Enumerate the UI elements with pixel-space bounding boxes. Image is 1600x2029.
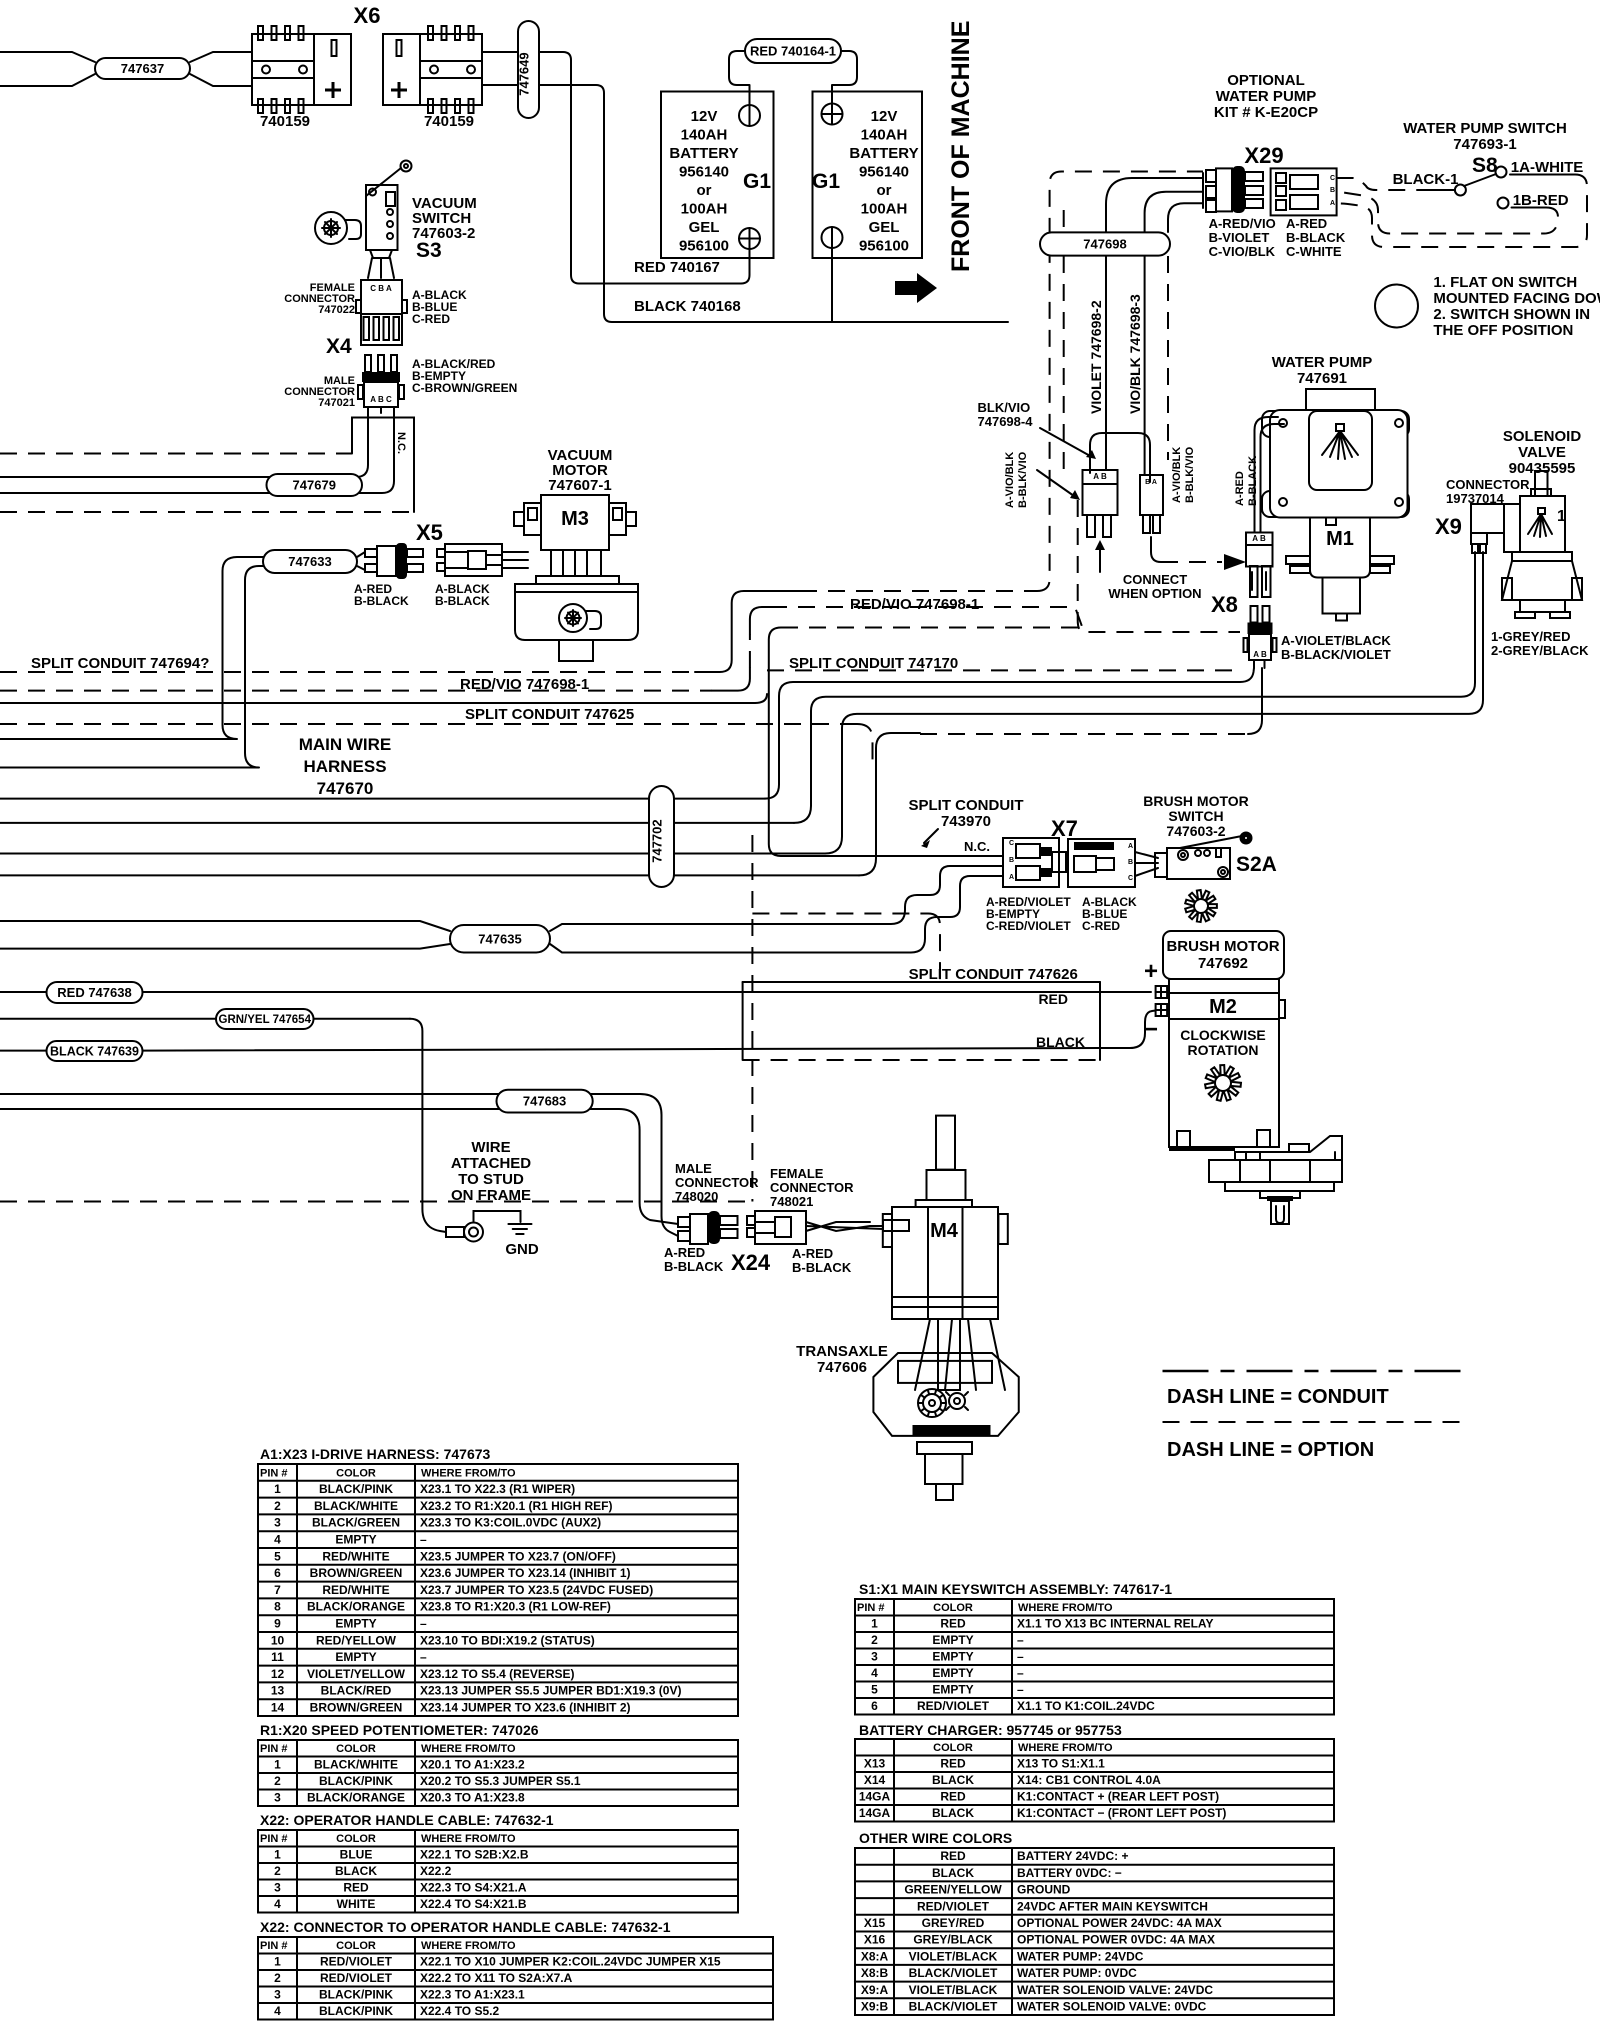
svg-text:X23.1 TO X22.3 (R1 WIPER): X23.1 TO X22.3 (R1 WIPER): [420, 1482, 575, 1496]
svg-text:WHERE FROM/TO: WHERE FROM/TO: [421, 1833, 516, 1845]
M3 left bracket: [524, 503, 541, 535]
svg-text:X15: X15: [864, 1916, 886, 1930]
harness wire L1 798.6: [0, 798, 765, 800]
svg-text:BLACK/PINK: BLACK/PINK: [319, 1774, 393, 1788]
svg-text:WATER SOLENOID VALVE: 0VDC: WATER SOLENOID VALVE: 0VDC: [1017, 2000, 1207, 2014]
svg-text:2: 2: [274, 1971, 281, 1985]
wire X29 to BLACK-1: [1337, 178, 1421, 190]
spring icon S2A: [1185, 890, 1217, 922]
wires water pump to X8-mate: [1255, 417, 1279, 532]
svg-text:SWITCH: SWITCH: [1168, 808, 1223, 824]
svg-text:BLACK/VIOLET: BLACK/VIOLET: [909, 2000, 998, 2014]
svg-text:747022: 747022: [318, 304, 355, 316]
battery G1 left box: [661, 92, 774, 259]
svg-text:4: 4: [274, 1897, 281, 1911]
conduit label 747633: [263, 550, 357, 573]
svg-text:VIOLET 747698-2: VIOLET 747698-2: [1088, 300, 1104, 414]
wire battery1 plus to RED 740167: [741, 258, 750, 284]
svg-text:3: 3: [274, 1791, 281, 1805]
svg-text:X4: X4: [326, 335, 352, 358]
wire jumper RED 740164-1 left: [729, 51, 750, 92]
svg-text:BRUSH MOTOR: BRUSH MOTOR: [1166, 938, 1279, 955]
svg-text:X14: CB1 CONTROL 4.0A: X14: CB1 CONTROL 4.0A: [1017, 1773, 1161, 1787]
svg-text:A-VIO/BLK: A-VIO/BLK: [1004, 452, 1016, 508]
svg-text:BLACK: BLACK: [932, 1866, 974, 1880]
svg-text:OPTIONAL POWER 24VDC: 4A M: OPTIONAL POWER 24VDC: 4A MAX: [1017, 1916, 1222, 1930]
blower icon S3: [315, 212, 347, 244]
svg-text:A1:X23 I-DRIVE HARNESS: 747: A1:X23 I-DRIVE HARNESS: 747673: [260, 1446, 491, 1462]
dashed conduit riser 752.4: [751, 835, 753, 1202]
svg-text:WHITE: WHITE: [337, 1897, 376, 1911]
jumper label RED 740164-1: [745, 39, 841, 63]
svg-text:7: 7: [274, 1583, 281, 1597]
svg-text:6: 6: [274, 1566, 281, 1580]
svg-text:K1:CONTACT + (REAR LEFT PO: K1:CONTACT + (REAR LEFT POST): [1017, 1790, 1219, 1804]
svg-text:12: 12: [271, 1667, 285, 1681]
svg-text:CONNECTOR: CONNECTOR: [1446, 477, 1530, 492]
svg-text:DASH LINE = OPTION: DASH LINE = OPTION: [1167, 1439, 1374, 1461]
water pump barbs: [1286, 556, 1310, 564]
svg-text:747692: 747692: [1198, 955, 1248, 972]
svg-text:BLACK/VIOLET: BLACK/VIOLET: [909, 1966, 998, 1980]
svg-text:X22: CONNECTOR TO OPERATOR: X22: CONNECTOR TO OPERATOR HANDLE CABLE:…: [260, 1919, 671, 1935]
svg-text:S8: S8: [1472, 154, 1498, 177]
battery G1 right plus terminal: [822, 104, 843, 125]
connector X6 right half 740159: [383, 34, 420, 105]
M3 right bracket: [609, 503, 626, 535]
svg-text:X8:A: X8:A: [861, 1949, 889, 1963]
transaxle M4 connector tab: [883, 1220, 909, 1231]
svg-text:CONNECTOR: CONNECTOR: [675, 1175, 759, 1190]
transaxle gearbox: [873, 1353, 1018, 1436]
svg-text:GROUND: GROUND: [1017, 1883, 1071, 1897]
svg-text:12V: 12V: [871, 108, 898, 125]
battery G1 right minus terminal: [822, 227, 843, 248]
svg-text:956140: 956140: [679, 164, 729, 181]
svg-text:1A-WHITE: 1A-WHITE: [1511, 159, 1584, 176]
brush motor M2 body: [1169, 979, 1279, 1147]
blower icon M3: [559, 604, 587, 632]
svg-text:X22.1 TO S2B:X2.B: X22.1 TO S2B:X2.B: [420, 1848, 529, 1862]
svg-text:COLOR: COLOR: [336, 1940, 376, 1952]
M3 commutator bars: [551, 550, 601, 576]
svg-text:747649: 747649: [517, 52, 532, 95]
vacuum motor M3 box: [541, 495, 609, 550]
svg-text:A B: A B: [1253, 650, 1267, 659]
svg-text:S1:X1 MAIN KEYSWITCH ASSEMB: S1:X1 MAIN KEYSWITCH ASSEMBLY: 747617-1: [859, 1581, 1172, 1597]
svg-text:–: –: [420, 1650, 427, 1664]
M3 dome housing: [515, 584, 638, 640]
M2 right tab: [1279, 1000, 1285, 1018]
svg-text:X8:B: X8:B: [861, 1966, 889, 1980]
svg-text:4: 4: [274, 1533, 281, 1547]
svg-text:WIRE: WIRE: [471, 1139, 510, 1156]
connector X6 left half 740159: [252, 34, 314, 105]
dashed option loop inner: [1512, 207, 1547, 209]
conduit label 747698: [1040, 232, 1170, 255]
svg-text:956100: 956100: [859, 238, 909, 255]
svg-text:SPLIT CONDUIT: SPLIT CONDUIT: [909, 797, 1024, 814]
svg-text:BLACK 747639: BLACK 747639: [50, 1044, 139, 1058]
water pump outlet: [1323, 578, 1361, 614]
svg-text:B: B: [1128, 859, 1133, 866]
svg-text:BATTERY: BATTERY: [849, 145, 918, 162]
wire battery2 minus to BLACK 740168: [831, 248, 833, 322]
svg-text:X13: X13: [864, 1757, 886, 1771]
svg-text:or: or: [697, 182, 712, 199]
svg-text:B-BLACK: B-BLACK: [435, 594, 490, 608]
svg-text:RED/VIOLET: RED/VIOLET: [917, 1699, 990, 1713]
svg-text:X9: X9: [1435, 514, 1462, 539]
svg-text:2: 2: [274, 1774, 281, 1788]
arrow connect-up: [1099, 548, 1101, 572]
svg-text:747637: 747637: [121, 61, 164, 76]
water pump top block: [1306, 389, 1375, 412]
X8 mate connector: [1246, 533, 1273, 567]
svg-text:100AH: 100AH: [681, 201, 728, 218]
split conduit 747626 box: [743, 981, 1100, 983]
svg-text:14GA: 14GA: [859, 1790, 891, 1804]
svg-text:PIN #: PIN #: [260, 1940, 288, 1952]
svg-text:X20.3 TO A1:X23.8: X20.3 TO A1:X23.8: [420, 1791, 525, 1805]
svg-text:X22.3 TO A1:X23.1: X22.3 TO A1:X23.1: [420, 1988, 525, 2002]
battery G1 right box: [813, 92, 923, 259]
svg-text:PIN #: PIN #: [260, 1467, 288, 1479]
svg-text:X9:A: X9:A: [861, 1983, 889, 1997]
svg-text:PIN #: PIN #: [260, 1743, 288, 1755]
svg-text:2. SWITCH SHOWN IN: 2. SWITCH SHOWN IN: [1433, 306, 1590, 323]
svg-text:X6: X6: [354, 3, 381, 28]
arrow label to C1: [1037, 470, 1074, 496]
svg-text:13: 13: [271, 1684, 285, 1698]
svg-text:B: B: [1330, 187, 1335, 194]
X24 male connector: [678, 1217, 690, 1227]
connector C1 A-VIO/BLK: [1083, 470, 1118, 515]
svg-text:11: 11: [271, 1650, 284, 1664]
svg-text:EMPTY: EMPTY: [932, 1683, 973, 1697]
svg-text:90435595: 90435595: [1509, 460, 1576, 477]
svg-text:RED 740167: RED 740167: [634, 259, 720, 276]
svg-text:X22.3 TO S4:X21.A: X22.3 TO S4:X21.A: [420, 1881, 527, 1895]
wire BLACK 747639: [0, 1050, 47, 1052]
svg-text:10: 10: [271, 1633, 285, 1647]
svg-text:RED: RED: [940, 1790, 966, 1804]
svg-text:X16: X16: [864, 1933, 886, 1947]
svg-text:OTHER WIRE COLORS: OTHER WIRE COLORS: [859, 1830, 1012, 1846]
wire X4 pin A down to 747679: [0, 413, 368, 477]
svg-text:3: 3: [274, 1516, 281, 1530]
svg-text:C: C: [1330, 175, 1335, 182]
S3 harness enclosure box: [352, 418, 414, 513]
svg-text:X8: X8: [1211, 592, 1238, 617]
bridge wire 747698-4: [1090, 433, 1150, 482]
svg-text:X23.6 JUMPER TO X23.14 (IN: X23.6 JUMPER TO X23.14 (INHIBIT 1): [420, 1566, 631, 1580]
svg-text:G1: G1: [812, 170, 840, 193]
svg-text:VALVE: VALVE: [1518, 444, 1566, 461]
svg-text:WATER PUMP: WATER PUMP: [1216, 88, 1317, 105]
svg-text:747679: 747679: [293, 478, 336, 493]
svg-text:2: 2: [871, 1633, 878, 1647]
svg-text:BATTERY 0VDC: −: BATTERY 0VDC: −: [1017, 1866, 1122, 1880]
water pump body: [1262, 411, 1297, 437]
svg-text:BLACK/PINK: BLACK/PINK: [319, 1482, 393, 1496]
riser wire v811 to solenoid 1: [794, 552, 1475, 823]
svg-text:3: 3: [274, 1988, 281, 2002]
svg-text:C B A: C B A: [370, 284, 392, 293]
wire BLACK to M2 minus: [1100, 1011, 1156, 1049]
svg-text:TO STUD: TO STUD: [458, 1171, 524, 1188]
svg-text:BLACK/ORANGE: BLACK/ORANGE: [307, 1791, 405, 1805]
svg-text:WHEN OPTION: WHEN OPTION: [1108, 586, 1201, 601]
svg-text:X23.13 JUMPER S5.5 JUMPER: X23.13 JUMPER S5.5 JUMPER BD1:X19.3 (0V): [420, 1684, 681, 1698]
dashed option boundary 627.5: [781, 627, 1080, 629]
vacuum switch S3 lever: [366, 168, 401, 196]
wire GRN/YEL 747654: [0, 1018, 216, 1020]
svg-text:747635: 747635: [478, 931, 521, 946]
svg-text:BROWN/GREEN: BROWN/GREEN: [310, 1566, 403, 1580]
svg-text:GRN/YEL 747654: GRN/YEL 747654: [219, 1014, 312, 1026]
note circle: [1375, 285, 1418, 328]
svg-text:X22.2: X22.2: [420, 1864, 452, 1878]
svg-text:X20.2 TO S5.3 JUMPER S5.1: X20.2 TO S5.3 JUMPER S5.1: [420, 1774, 581, 1788]
svg-text:1. FLAT ON SWITCH: 1. FLAT ON SWITCH: [1433, 274, 1577, 291]
svg-text:X5: X5: [416, 520, 443, 545]
svg-text:EMPTY: EMPTY: [335, 1617, 376, 1631]
svg-text:WHERE FROM/TO: WHERE FROM/TO: [421, 1467, 516, 1479]
svg-text:1: 1: [274, 1848, 281, 1862]
svg-text:RED/VIO 747698-1: RED/VIO 747698-1: [850, 596, 979, 613]
svg-text:N.C.: N.C.: [964, 839, 990, 854]
transaxle M4 body: [892, 1207, 998, 1319]
svg-text:1B-RED: 1B-RED: [1513, 192, 1569, 209]
ground bracket: [474, 1211, 521, 1223]
dashed wire 747170 670.4: [767, 669, 1238, 671]
svg-text:X22.4 TO S5.2: X22.4 TO S5.2: [420, 2004, 499, 2018]
conduit label 747679: [267, 474, 363, 496]
svg-text:B-BLK/VIO: B-BLK/VIO: [1184, 446, 1196, 503]
svg-text:747698-4: 747698-4: [978, 414, 1034, 429]
svg-text:8: 8: [274, 1600, 281, 1614]
conduit dashed line 453.5: [0, 453, 352, 455]
X5 male connector half: [357, 552, 365, 557]
svg-text:2-GREY/BLACK: 2-GREY/BLACK: [1491, 643, 1589, 658]
wire N.C. riser to X7: [769, 628, 1003, 857]
svg-text:RED/VIOLET: RED/VIOLET: [917, 1899, 990, 1913]
conduit label 747702 vertical: [649, 786, 674, 887]
svg-text:S2A: S2A: [1236, 853, 1277, 876]
svg-text:RED/VIOLET: RED/VIOLET: [320, 1971, 393, 1985]
svg-text:COLOR: COLOR: [336, 1833, 376, 1845]
svg-text:B-BLACK: B-BLACK: [1247, 456, 1259, 506]
svg-text:4: 4: [871, 1666, 878, 1680]
svg-text:A-RED: A-RED: [1286, 216, 1327, 231]
dashed wire 690 RED/VIO to X8 riser: [0, 690, 712, 692]
svg-text:4: 4: [274, 2004, 281, 2018]
svg-text:X24: X24: [731, 1250, 771, 1275]
conduit label 747637: [95, 58, 190, 79]
svg-text:N.C.: N.C.: [395, 432, 407, 454]
X7 male connector: [1068, 839, 1135, 887]
svg-text:RED: RED: [940, 1757, 966, 1771]
label BRUSH MOTOR 747692 box: [1163, 931, 1284, 979]
dashed wire 672 to M3/X29 riser: [0, 671, 695, 673]
svg-text:COLOR: COLOR: [933, 1742, 973, 1754]
svg-text:WATER PUMP: WATER PUMP: [1272, 354, 1373, 371]
wire X29-B to vio/blk riser: [1145, 192, 1203, 475]
svg-text:6: 6: [871, 1699, 878, 1713]
svg-text:SPLIT CONDUIT 747694?: SPLIT CONDUIT 747694?: [31, 655, 209, 672]
wire C2 to option arrow: [1151, 537, 1161, 562]
svg-text:B-BLACK: B-BLACK: [1286, 230, 1346, 245]
svg-text:747691: 747691: [1297, 370, 1347, 387]
svg-text:X1.1 TO X13 BC INTERNAL R: X1.1 TO X13 BC INTERNAL RELAY: [1017, 1617, 1214, 1631]
wire pair 747683: [0, 1093, 640, 1095]
svg-text:2: 2: [274, 1864, 281, 1878]
svg-text:BLACK/GREEN: BLACK/GREEN: [312, 1516, 400, 1530]
svg-text:747607-1: 747607-1: [548, 477, 611, 494]
wires X7 to S2A plug: [1135, 852, 1158, 858]
svg-text:WATER PUMP SWITCH: WATER PUMP SWITCH: [1403, 120, 1567, 137]
ground symbol: [508, 1223, 531, 1225]
svg-text:B-BLACK/VIOLET: B-BLACK/VIOLET: [1281, 647, 1391, 662]
svg-text:M4: M4: [930, 1220, 959, 1242]
svg-text:VIO/BLK 747698-3: VIO/BLK 747698-3: [1127, 294, 1143, 414]
svg-text:GREY/BLACK: GREY/BLACK: [913, 1933, 993, 1947]
svg-text:BLACK: BLACK: [335, 1864, 377, 1878]
svg-text:TRANSAXLE: TRANSAXLE: [796, 1343, 888, 1360]
svg-text:A-RED: A-RED: [664, 1245, 705, 1260]
svg-text:1: 1: [274, 1955, 281, 1969]
svg-text:WATER PUMP: 0VDC: WATER PUMP: 0VDC: [1017, 1966, 1137, 1980]
water pump inner panel: [1309, 411, 1372, 490]
svg-text:SPLIT CONDUIT 747170: SPLIT CONDUIT 747170: [789, 655, 958, 672]
svg-text:KIT # K-E20CP: KIT # K-E20CP: [1214, 104, 1318, 121]
svg-text:EMPTY: EMPTY: [932, 1666, 973, 1680]
svg-text:C: C: [1128, 875, 1133, 882]
svg-text:X23.12 TO S5.4 (REVERSE): X23.12 TO S5.4 (REVERSE): [420, 1667, 575, 1681]
label RED 747638: [47, 982, 143, 1003]
dashed wire 611 to X8: [770, 607, 1240, 632]
X8 connector: [1251, 606, 1258, 623]
svg-text:3: 3: [274, 1881, 281, 1895]
svg-text:GEL: GEL: [869, 219, 900, 236]
female connector 747022: [361, 280, 402, 345]
svg-text:RED/VIOLET: RED/VIOLET: [320, 1955, 393, 1969]
X5 female connector half: [437, 549, 445, 557]
svg-text:747698: 747698: [1083, 237, 1126, 252]
water pump motor M1: [1310, 518, 1370, 578]
svg-text:956140: 956140: [859, 164, 909, 181]
dashed conduit riser inner-left: [1063, 210, 1065, 232]
transaxle M4 shaft top: [936, 1116, 955, 1170]
svg-text:748020: 748020: [675, 1189, 718, 1204]
svg-text:FEMALE: FEMALE: [770, 1166, 824, 1181]
svg-text:A-VIO/BLK: A-VIO/BLK: [1171, 447, 1183, 503]
svg-text:B: B: [1009, 857, 1014, 864]
svg-text:X23.3 TO K3:COIL.0VDC (AUX2: X23.3 TO K3:COIL.0VDC (AUX2): [420, 1516, 601, 1530]
svg-text:CONNECT: CONNECT: [1123, 572, 1187, 587]
svg-text:BLACK/RED: BLACK/RED: [321, 1684, 392, 1698]
svg-text:ATTACHED: ATTACHED: [451, 1155, 531, 1172]
svg-text:A B: A B: [1093, 472, 1107, 481]
dashed conduit line 1201: [0, 1201, 752, 1203]
svg-text:X23.2 TO R1:X20.1 (R1 HIGH: X23.2 TO R1:X20.1 (R1 HIGH REF): [420, 1499, 613, 1513]
wire X29-C to dashed riser 1168: [1168, 203, 1203, 232]
svg-text:X23.8 TO R1:X20.3 (R1 LOW-: X23.8 TO R1:X20.3 (R1 LOW-REF): [420, 1600, 611, 1614]
S2A lever: [1180, 836, 1242, 848]
svg-text:1-GREY/RED: 1-GREY/RED: [1491, 629, 1570, 644]
svg-text:B-BLACK: B-BLACK: [354, 594, 409, 608]
dashed conduit riser lower: [1078, 500, 1084, 632]
label BLACK 747639: [47, 1041, 143, 1061]
svg-text:WHERE FROM/TO: WHERE FROM/TO: [421, 1940, 516, 1952]
svg-text:BATTERY 24VDC: +: BATTERY 24VDC: +: [1017, 1849, 1128, 1863]
svg-text:OPTIONAL POWER 0VDC: 4A MA: OPTIONAL POWER 0VDC: 4A MAX: [1017, 1933, 1215, 1947]
svg-text:C-RED/VIOLET: C-RED/VIOLET: [986, 919, 1071, 933]
svg-text:EMPTY: EMPTY: [335, 1650, 376, 1664]
wire 703: [0, 702, 755, 704]
svg-text:747606: 747606: [817, 1359, 867, 1376]
wire 747633 A down-left: [0, 557, 263, 739]
X29 male connector: [1202, 173, 1204, 208]
svg-text:–: –: [420, 1617, 427, 1631]
svg-text:140AH: 140AH: [861, 127, 908, 144]
svg-text:WHERE FROM/TO: WHERE FROM/TO: [1018, 1602, 1113, 1614]
transaxle bottom: [913, 1425, 991, 1436]
arrow BLK/VIO to bridge: [1040, 428, 1092, 457]
svg-text:747702: 747702: [650, 819, 665, 862]
wire 747635 to X7 risers: [550, 866, 1003, 931]
M2 feet: [1177, 1131, 1190, 1147]
wires X5 to vacuum motor M3: [502, 551, 528, 553]
svg-text:747633: 747633: [288, 554, 331, 569]
svg-text:−: −: [1144, 1016, 1158, 1043]
svg-text:24VDC AFTER MAIN KEYSWITCH: 24VDC AFTER MAIN KEYSWITCH: [1017, 1899, 1208, 1913]
svg-text:A-RED: A-RED: [1234, 471, 1246, 506]
svg-text:A: A: [1128, 843, 1133, 850]
svg-text:EMPTY: EMPTY: [932, 1650, 973, 1664]
battery G1 left minus terminal: [739, 105, 760, 126]
svg-text:X23.5 JUMPER TO X23.7 (ON/: X23.5 JUMPER TO X23.7 (ON/OFF): [420, 1549, 616, 1563]
label GRN/YEL 747654: [216, 1009, 314, 1029]
X7 female connector: [1003, 838, 1059, 887]
svg-text:RED: RED: [343, 1881, 369, 1895]
M2 output shaft: [1260, 1191, 1300, 1198]
svg-text:X22.1 TO X10 JUMPER K2:COI: X22.1 TO X10 JUMPER K2:COIL.24VDC JUMPER…: [420, 1955, 721, 1969]
brush motor switch S2A body: [1167, 848, 1230, 879]
X24 female connector: [747, 1216, 755, 1225]
svg-text:747693-1: 747693-1: [1453, 136, 1516, 153]
svg-text:A B: A B: [1252, 534, 1266, 543]
svg-text:BATTERY: BATTERY: [669, 145, 738, 162]
harness wire L2 822.9: [0, 822, 794, 824]
svg-text:B-BLK/VIO: B-BLK/VIO: [1017, 451, 1029, 508]
svg-text:X1.1 TO K1:COIL.24VDC: X1.1 TO K1:COIL.24VDC: [1017, 1699, 1155, 1713]
svg-text:BLACK: BLACK: [932, 1773, 974, 1787]
svg-text:X13 TO S1:X1.1: X13 TO S1:X1.1: [1017, 1757, 1105, 1771]
svg-text:COLOR: COLOR: [933, 1602, 973, 1614]
svg-text:747021: 747021: [318, 397, 355, 409]
svg-text:RED/WHITE: RED/WHITE: [322, 1583, 389, 1597]
svg-text:3: 3: [871, 1650, 878, 1664]
dashed conduit 913.5 to 747626 box: [752, 913, 928, 915]
svg-text:+: +: [1144, 958, 1158, 985]
svg-text:1: 1: [871, 1617, 878, 1631]
wire pair to 747635: [0, 921, 450, 949]
svg-text:1: 1: [274, 1758, 281, 1772]
svg-text:5: 5: [871, 1683, 878, 1697]
svg-text:WATER SOLENOID VALVE: 24VDC: WATER SOLENOID VALVE: 24VDC: [1017, 1983, 1213, 1997]
